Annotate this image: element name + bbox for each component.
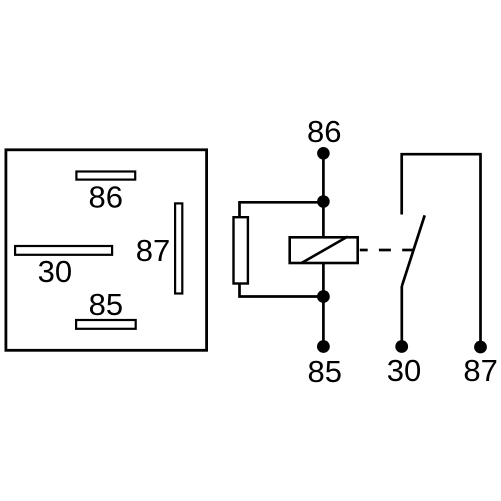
- svg-text:30: 30: [387, 353, 421, 388]
- actuation dashed link: [360, 249, 413, 252]
- svg-text:85: 85: [308, 354, 342, 389]
- svg-text:30: 30: [38, 254, 72, 289]
- svg-text:87: 87: [463, 353, 497, 388]
- svg-text:85: 85: [89, 287, 123, 322]
- junction node bottom: [317, 290, 330, 303]
- terminal dot 85: [317, 340, 330, 353]
- wire 86 to coil: [322, 153, 325, 237]
- svg-text:86: 86: [89, 180, 123, 215]
- wire resistor top branch: [240, 202, 324, 217]
- pin slot 87: [175, 203, 182, 293]
- switch blade: [402, 215, 425, 286]
- terminal dot 30: [395, 340, 408, 353]
- terminal dot 86: [317, 147, 330, 160]
- pin slot 85: [76, 320, 136, 329]
- coil K1: [290, 237, 358, 263]
- wire switch top: [402, 154, 481, 346]
- wire blade to 30: [400, 286, 403, 347]
- pin slot 86: [76, 172, 135, 180]
- resistor R: [234, 217, 248, 283]
- coil diagonal stroke: [302, 237, 348, 264]
- terminal dot 87: [474, 341, 487, 354]
- svg-text:87: 87: [136, 233, 170, 268]
- svg-text:86: 86: [307, 114, 341, 149]
- pin slot 30: [15, 246, 112, 255]
- relay body outline: [6, 150, 207, 350]
- wire resistor bottom branch: [240, 284, 324, 297]
- wire coil to 85: [322, 263, 325, 347]
- junction node top: [317, 195, 330, 208]
